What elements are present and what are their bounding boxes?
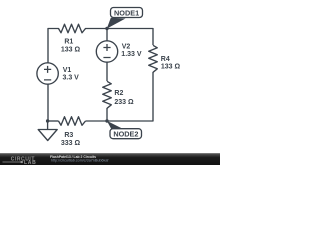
resistor R1 bbox=[59, 24, 86, 54]
svg-text:V1: V1 bbox=[63, 67, 72, 74]
wire R2 bottom to NODE2 junction bbox=[106, 108, 108, 121]
svg-text:V2: V2 bbox=[122, 44, 131, 51]
wire ground junction to R3 bbox=[48, 120, 59, 122]
footer bar bbox=[0, 153, 220, 165]
svg-text:R4: R4 bbox=[161, 56, 170, 63]
svg-text:1.33 V: 1.33 V bbox=[121, 51, 142, 58]
svg-text:http://circuitlab.com/c/3a7nBu: http://circuitlab.com/c/3a7nBub6kaf bbox=[51, 158, 109, 162]
footer CircuitLab logo bbox=[3, 156, 37, 166]
voltage source V1 bbox=[37, 63, 79, 84]
wire middle branch node to V2 bbox=[106, 29, 108, 41]
ground bbox=[38, 121, 57, 141]
junction dot NODE1 bbox=[105, 27, 108, 30]
svg-text:3.3 V: 3.3 V bbox=[63, 75, 80, 82]
svg-text:233 Ω: 233 Ω bbox=[114, 99, 134, 106]
wire R3 right to NODE2 junction bbox=[86, 120, 108, 122]
wire R4 bottom to bottom-right corner and left to NODE2 junction bbox=[107, 72, 153, 121]
wire top from V1 corner through R1 node to right branch bbox=[48, 29, 153, 63]
resistor R2 bbox=[103, 81, 134, 108]
junction dot ground node bbox=[46, 119, 49, 122]
resistor R3 bbox=[59, 117, 86, 147]
svg-text:333 Ω: 333 Ω bbox=[61, 140, 81, 147]
wire V2 bottom to R2 bbox=[106, 62, 108, 81]
svg-text:R2: R2 bbox=[114, 90, 123, 97]
svg-text:LAB: LAB bbox=[24, 160, 36, 165]
svg-text:R3: R3 bbox=[64, 132, 73, 139]
node NODE1 label bbox=[111, 8, 143, 18]
wire V1 bottom to ground junction bbox=[47, 84, 49, 121]
svg-text:R1: R1 bbox=[64, 39, 73, 46]
node NODE2 flag pointer bbox=[107, 121, 125, 130]
svg-text:133 Ω: 133 Ω bbox=[61, 47, 81, 54]
node NODE2 label bbox=[110, 129, 142, 139]
svg-text:NODE1: NODE1 bbox=[114, 8, 139, 17]
svg-text:133 Ω: 133 Ω bbox=[161, 64, 181, 71]
resistor R4 bbox=[149, 45, 181, 72]
voltage source V2 bbox=[96, 41, 142, 62]
wire right branch top corner to R4 bbox=[152, 29, 154, 46]
svg-text:NODE2: NODE2 bbox=[113, 130, 138, 139]
node NODE1 flag pointer bbox=[107, 18, 126, 29]
junction dot NODE2 bbox=[105, 119, 108, 122]
